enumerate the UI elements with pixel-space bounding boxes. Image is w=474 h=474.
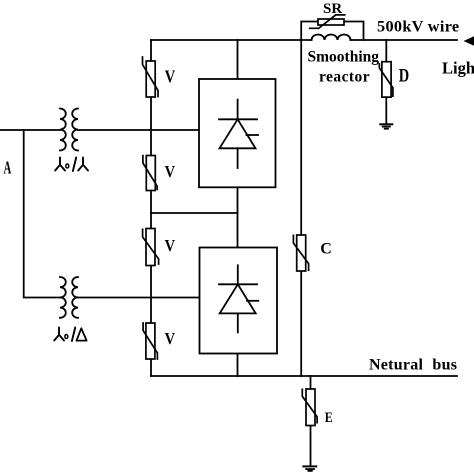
svg-text:C: C bbox=[320, 241, 332, 258]
svg-text:SR: SR bbox=[323, 1, 342, 17]
svg-text:V: V bbox=[165, 163, 176, 181]
svg-text:D: D bbox=[399, 65, 409, 86]
svg-text:Lightning: Lightning bbox=[442, 58, 474, 77]
svg-text:E: E bbox=[325, 409, 333, 425]
svg-text:V: V bbox=[165, 237, 176, 255]
svg-text:A: A bbox=[4, 159, 12, 178]
svg-text:reactor: reactor bbox=[319, 69, 370, 86]
svg-text:500kV wire: 500kV wire bbox=[377, 17, 459, 36]
svg-text:V: V bbox=[165, 330, 176, 348]
svg-text:Smoothing: Smoothing bbox=[308, 48, 380, 65]
svg-text:V: V bbox=[165, 66, 176, 87]
svg-text:Netural bus: Netural bus bbox=[369, 357, 457, 374]
